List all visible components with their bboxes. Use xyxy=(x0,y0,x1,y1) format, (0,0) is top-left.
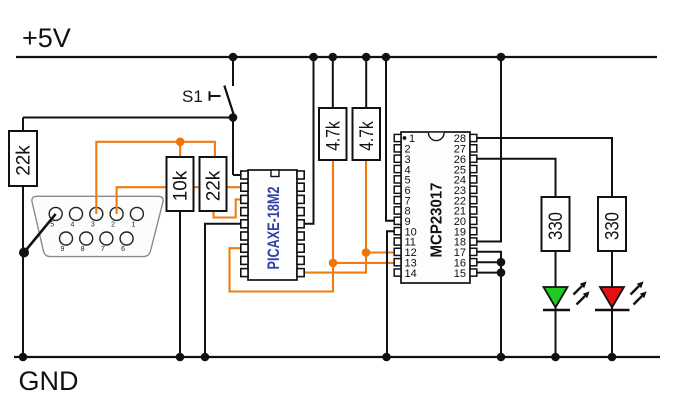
svg-text:330: 330 xyxy=(603,212,624,240)
svg-text:S1: S1 xyxy=(182,87,203,106)
svg-text:6: 6 xyxy=(121,246,125,253)
svg-text:3: 3 xyxy=(91,222,95,229)
svg-text:15: 15 xyxy=(454,268,466,280)
svg-text:PICAXE-18M2: PICAXE-18M2 xyxy=(264,187,283,270)
svg-text:+5V: +5V xyxy=(22,23,71,53)
svg-text:2: 2 xyxy=(111,222,115,229)
svg-text:4.7k: 4.7k xyxy=(323,121,344,151)
svg-text:4: 4 xyxy=(71,222,75,229)
svg-text:4.7k: 4.7k xyxy=(357,121,378,151)
svg-text:10k: 10k xyxy=(171,170,192,201)
svg-text:1: 1 xyxy=(131,222,135,229)
svg-text:8: 8 xyxy=(81,246,85,253)
svg-text:330: 330 xyxy=(546,212,567,240)
svg-text:14: 14 xyxy=(405,268,417,280)
svg-text:GND: GND xyxy=(19,366,79,396)
svg-text:22k: 22k xyxy=(14,145,35,176)
svg-text:MCP23017: MCP23017 xyxy=(429,182,446,257)
svg-text:22k: 22k xyxy=(204,170,225,201)
svg-text:9: 9 xyxy=(61,246,65,253)
svg-text:5: 5 xyxy=(50,222,54,229)
svg-text:7: 7 xyxy=(101,246,105,253)
